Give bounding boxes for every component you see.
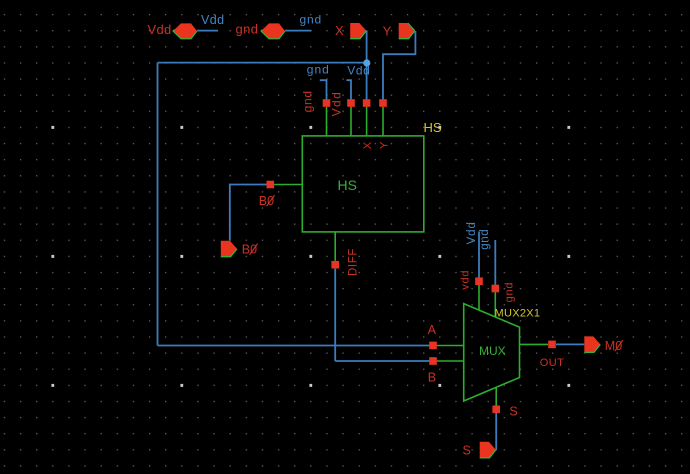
port gnd hexagon (261, 23, 285, 38)
svg-text:MUX2X1: MUX2X1 (495, 308, 541, 320)
svg-text:M0: M0 (605, 339, 622, 353)
wire MUX vdd pin up (478, 232, 480, 278)
wire green stub HS B0 pin (274, 184, 302, 186)
pin HS Y (379, 99, 387, 107)
port Y pentagon (399, 23, 415, 39)
svg-text:Vdd: Vdd (347, 63, 370, 77)
pin HS gnd (323, 99, 331, 107)
pin HS B0 (267, 181, 275, 189)
svg-text:HS: HS (338, 177, 357, 193)
port Vdd hexagon (173, 23, 197, 38)
port S pentagon (480, 442, 496, 458)
svg-text:gnd: gnd (307, 63, 330, 77)
wire green stub HS gnd pin (326, 107, 328, 136)
wire net X horizontal from left rail to junction (158, 62, 367, 64)
component U2 MUX2X1 trapezoid body (464, 304, 520, 401)
svg-text:OUT: OUT (540, 357, 564, 369)
svg-text:X: X (362, 141, 374, 149)
svg-text:Y: Y (383, 23, 392, 38)
pin MUX vdd (475, 277, 483, 285)
wire green stub MUX B pin (437, 360, 464, 362)
wire DIFF horizontal to MUX B pin (335, 360, 433, 362)
svg-text:Vdd: Vdd (148, 22, 172, 37)
svg-text:gnd: gnd (479, 229, 491, 250)
wire green stub HS Y pin (382, 107, 384, 136)
svg-text:gnd: gnd (300, 12, 322, 26)
svg-text:S: S (509, 405, 517, 419)
wire Vdd stub at HS pin (347, 80, 352, 103)
wire DIFF vertical from DIFF pin (334, 269, 336, 361)
wire green stub MUX OUT pin (520, 343, 549, 345)
svg-text:gnd: gnd (236, 21, 259, 36)
node junction dot X net (363, 59, 370, 66)
pin MUX B (429, 357, 437, 365)
pin HS Vdd (347, 99, 355, 107)
svg-text:Vdd: Vdd (466, 221, 478, 244)
wire gnd stub at HS pin (320, 80, 327, 103)
svg-text:A: A (428, 323, 437, 337)
svg-text:DIFF: DIFF (348, 248, 360, 276)
wire A feed horizontal to MUX A pin (158, 345, 434, 347)
pin MUX A (429, 342, 437, 350)
wire from Y port down (383, 31, 415, 103)
wire green stub MUX A pin (437, 345, 464, 347)
svg-text:Vdd: Vdd (329, 91, 343, 117)
wire green stub MUX vdd pin (478, 285, 480, 311)
block U1 HS body (302, 136, 424, 232)
wire green stub HS Vdd pin (350, 107, 352, 136)
wire green stub MUX gnd pin (494, 292, 496, 317)
port M0 pentagon (584, 336, 600, 352)
svg-text:Vdd: Vdd (201, 13, 224, 27)
pin HS X (363, 99, 371, 107)
svg-text:HS: HS (424, 120, 442, 135)
wire Vdd port stub (197, 30, 218, 32)
port X pentagon (350, 23, 366, 39)
pin MUX S (492, 406, 500, 414)
svg-text:Y: Y (379, 141, 391, 149)
svg-text:X: X (335, 23, 344, 38)
wire OUT to M0 port (556, 343, 584, 345)
pin HS DIFF (331, 261, 339, 269)
wire left rail vertical (157, 63, 159, 346)
svg-text:MUX: MUX (479, 344, 506, 358)
wire green stub HS X pin (366, 107, 368, 136)
svg-text:gnd: gnd (301, 90, 315, 112)
wire B0 from HS pin to B0 port (230, 185, 267, 241)
wire from X port down to HS X pin (366, 30, 368, 103)
svg-text:gnd: gnd (504, 282, 516, 303)
wire green stub HS DIFF pin (334, 232, 336, 261)
wire green stub MUX S pin (495, 388, 497, 406)
port B0 pentagon (221, 241, 237, 257)
wire MUX gnd pin up (494, 240, 496, 285)
wire S pin down to S port (495, 413, 497, 450)
svg-text:vdd: vdd (460, 270, 472, 290)
svg-text:B: B (428, 370, 436, 384)
pin MUX OUT (548, 341, 556, 349)
pin MUX gnd (492, 285, 500, 293)
svg-text:S: S (463, 443, 471, 457)
wire gnd port stub (285, 30, 311, 32)
